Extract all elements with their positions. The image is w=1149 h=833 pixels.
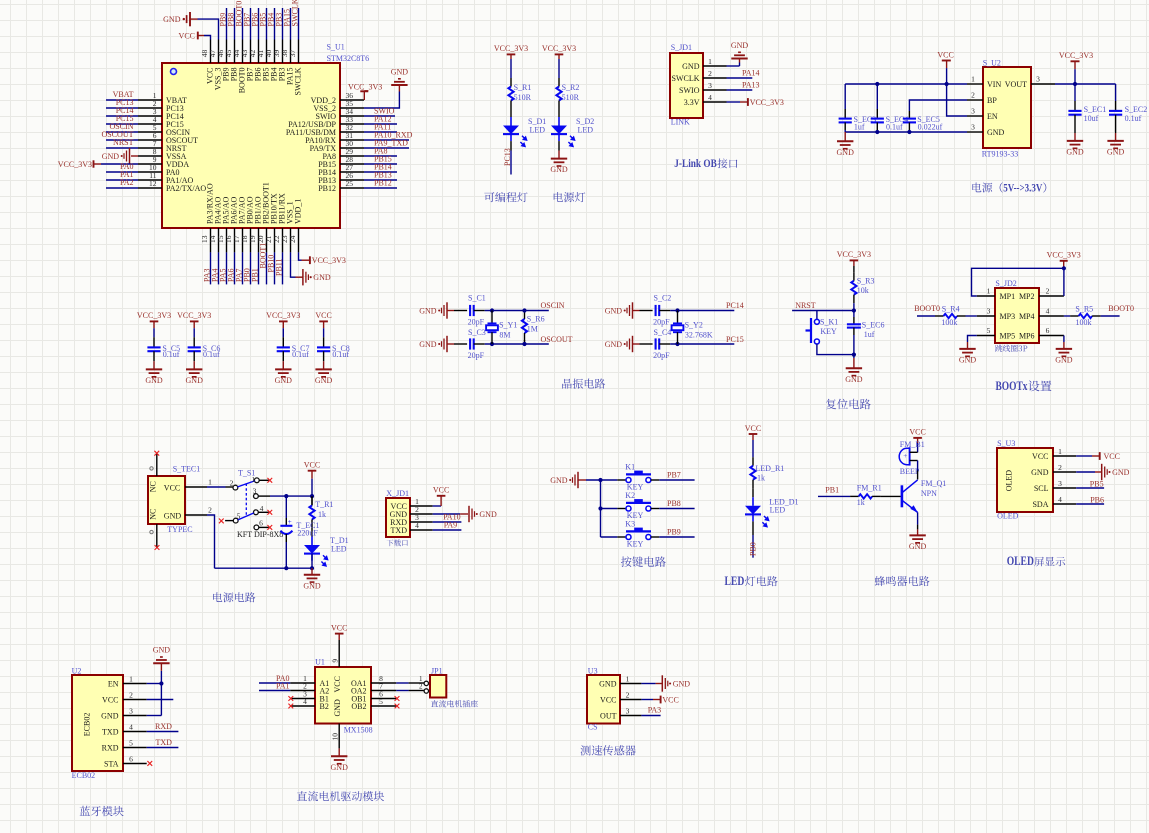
svg-text:GND: GND <box>101 711 119 720</box>
wire <box>601 536 618 538</box>
svg-text:LINK: LINK <box>671 118 690 127</box>
wire <box>601 508 618 510</box>
svg-text:KFT DIP-8X8: KFT DIP-8X8 <box>237 530 283 539</box>
power VCC_3V3 above S_C5 <box>150 320 159 322</box>
connector X_JD1 body <box>386 498 410 537</box>
wire net PB7 <box>651 479 660 481</box>
switch pin1 open <box>259 479 269 481</box>
U1 pin 10 GND stub <box>338 724 340 749</box>
no-ERC mark at STA <box>147 761 152 766</box>
svg-text:VCC_3V3: VCC_3V3 <box>348 82 382 91</box>
U2 pin 4 TXD <box>123 731 147 733</box>
MCU pin 5 OSCIN stub <box>138 131 162 133</box>
connector S_JD1 body <box>670 53 703 118</box>
socket JP1 body <box>430 675 446 698</box>
U2 pin 6 STA <box>123 763 147 765</box>
S_U3 pin 2 GND <box>1053 471 1076 473</box>
MCU pin 44 BOOT0 stub <box>242 40 244 64</box>
MCU pin 20 PB2/BOOT1 stub <box>266 228 268 252</box>
wire net BOOT0 right <box>1101 315 1120 317</box>
svg-text:1uf: 1uf <box>854 123 865 132</box>
MCU pin 38 PA15 stub <box>290 40 292 64</box>
svg-text:VCC: VCC <box>662 695 678 704</box>
svg-text:1: 1 <box>251 475 255 484</box>
wire <box>282 328 284 337</box>
svg-text:2: 2 <box>129 690 133 699</box>
svg-text:S_EC6: S_EC6 <box>862 321 885 330</box>
S_U2 pin 3 VOUT <box>1031 83 1055 85</box>
svg-text:GND: GND <box>550 165 568 174</box>
svg-text:NC: NC <box>149 481 158 492</box>
wire pin1 to ground <box>641 683 655 685</box>
wire <box>752 440 754 457</box>
wire net BOOT0 left <box>917 315 935 317</box>
wire <box>558 59 560 78</box>
caption programmable LED <box>484 192 527 202</box>
wire net PA3 bottom <box>210 252 212 284</box>
svg-text:PA14: PA14 <box>742 69 760 78</box>
svg-text:S_R5: S_R5 <box>1075 304 1093 313</box>
svg-text:GND: GND <box>313 273 331 282</box>
wire <box>752 488 754 497</box>
svg-text:PB0: PB0 <box>749 542 758 556</box>
caption DC motor driver module <box>297 791 384 801</box>
svg-text:OB2: OB2 <box>351 702 366 711</box>
wire net PB13 <box>364 179 397 181</box>
power VCC_3V3 above S_R3 <box>850 259 859 261</box>
svg-text:U3: U3 <box>588 666 598 675</box>
capacitor S_C5 0.1uf <box>147 346 160 348</box>
svg-text:PB9: PB9 <box>667 528 681 537</box>
ground left of S_C3 <box>446 336 448 352</box>
wire <box>917 512 919 524</box>
MCU pin 15 PA5/AO stub <box>226 228 228 252</box>
wire VIN rail <box>845 83 967 85</box>
junction <box>852 353 856 357</box>
wire <box>853 303 855 310</box>
svg-text:VCC_3V3: VCC_3V3 <box>542 44 576 53</box>
svg-text:20pF: 20pF <box>468 317 485 326</box>
junction <box>875 130 879 134</box>
no-ERC mark at B1 <box>288 696 293 701</box>
X_JD1 pin 3 RXD <box>410 521 433 523</box>
svg-text:K3: K3 <box>625 519 635 528</box>
svg-text:1k: 1k <box>318 510 326 519</box>
MCU pin 29 PA8 stub <box>340 155 364 157</box>
wire net OSCIN <box>106 131 138 133</box>
MCU pin 3 PC14 stub <box>138 115 162 117</box>
ground right of X_JD1 <box>468 506 470 522</box>
svg-text:5: 5 <box>987 326 991 335</box>
ground below T_D1 <box>311 568 313 575</box>
switch pin4 open <box>258 511 269 513</box>
svg-text:S_JD1: S_JD1 <box>671 43 692 52</box>
MCU pin 23 VSS_1 stub <box>290 228 292 252</box>
wire net PA2 <box>106 187 138 189</box>
svg-text:PA13: PA13 <box>742 81 760 90</box>
wire net PB11 bottom <box>282 252 284 284</box>
wire pin2 to power <box>641 699 653 701</box>
svg-text:GND: GND <box>315 376 333 385</box>
wire net PB0 <box>752 521 754 535</box>
wire pin1 to power <box>433 505 441 507</box>
capacitor S_EC6 1uf <box>847 323 861 325</box>
display S_U3 body <box>997 448 1053 512</box>
wire net PB4 top <box>274 8 276 40</box>
wire <box>153 328 155 337</box>
key S_K1 <box>814 319 819 324</box>
wire pin1 EN <box>147 683 162 685</box>
svg-text:GND: GND <box>909 542 927 551</box>
S_JD1 pin 3 SWIO <box>703 89 727 91</box>
svg-text:VCC_3V3: VCC_3V3 <box>750 98 784 107</box>
S_JD1 pin 2 SWCLK <box>703 77 727 79</box>
svg-text:TXD: TXD <box>391 526 408 535</box>
MCU pin 48 VCC stub <box>210 40 212 64</box>
MCU designator marker circle <box>171 69 177 75</box>
MCU pin 16 PA6/AO stub <box>234 228 236 252</box>
caption reset circuit <box>826 399 871 410</box>
switch T_S1 pole B <box>233 518 238 523</box>
svg-text:VCC_3V3: VCC_3V3 <box>58 160 92 169</box>
svg-text:10k: 10k <box>857 286 869 295</box>
MCU pin 2 PC13 stub <box>138 107 162 109</box>
sensor U3 pin 1 GND <box>620 683 641 685</box>
svg-text:BOOTx: BOOTx <box>996 379 1029 393</box>
svg-text:1: 1 <box>1058 447 1062 456</box>
svg-text:2: 2 <box>1046 286 1050 295</box>
wire net PB1 bottom <box>258 252 260 284</box>
svg-text:PA9: PA9 <box>444 521 458 530</box>
svg-text:2: 2 <box>419 683 423 691</box>
wire net PC13 <box>106 107 138 109</box>
svg-text:S_TEC1: S_TEC1 <box>173 464 201 473</box>
svg-text:VCC_3V3: VCC_3V3 <box>1047 250 1081 259</box>
wire <box>853 328 855 335</box>
MCU pin 18 PB0/AO stub <box>250 228 252 252</box>
svg-text:20pF: 20pF <box>653 317 670 326</box>
svg-text:4: 4 <box>303 697 307 706</box>
wire net PA9 <box>433 529 462 531</box>
switch T_S1 link <box>245 483 247 516</box>
wire VDDA <box>101 163 138 165</box>
wire net PB15 <box>364 163 397 165</box>
svg-text:U1: U1 <box>315 657 325 666</box>
capacitor S_EC2 0.1uf <box>1109 110 1122 112</box>
svg-text:GND: GND <box>682 62 700 71</box>
MCU pin 22 PB11/RX stub <box>282 228 284 252</box>
wire net PA7 bottom <box>242 252 244 284</box>
caption key circuit <box>621 556 666 567</box>
wire <box>285 496 287 518</box>
wire net VBAT <box>106 99 138 101</box>
MCU pin 9 VDDA stub <box>138 163 162 165</box>
svg-text:GND: GND <box>391 68 409 77</box>
power VCC_3V3 above S_C7 <box>279 320 288 322</box>
svg-text:EN: EN <box>987 112 998 121</box>
svg-text:20pF: 20pF <box>653 351 670 360</box>
svg-text:SWIO: SWIO <box>679 86 700 95</box>
wire <box>908 111 910 118</box>
svg-text:S_R2: S_R2 <box>562 83 580 92</box>
svg-text:LED: LED <box>770 506 786 515</box>
power VCC_3V3 above S_R1 <box>507 53 516 55</box>
svg-text:220uF: 220uF <box>297 529 318 538</box>
resistor S_R3 10k <box>853 272 855 281</box>
wire VCC stem <box>946 68 948 84</box>
wire net PB14 <box>364 171 397 173</box>
wire OA2 to JP1 <box>396 690 408 692</box>
wire net PA0 <box>259 682 290 684</box>
svg-text:B2: B2 <box>320 702 329 711</box>
svg-text:PB11: PB11 <box>275 259 284 277</box>
JP1 pin 1 <box>424 681 428 685</box>
jumper S_JD2 body <box>995 288 1039 343</box>
svg-text:9: 9 <box>331 659 340 663</box>
svg-text:GND: GND <box>837 148 855 157</box>
U1 pin 1 A1 <box>290 682 315 684</box>
wire net PA11 <box>364 131 397 133</box>
wire <box>817 344 854 355</box>
svg-text:VCC: VCC <box>164 484 180 493</box>
MCU pin 27 PB14 stub <box>340 171 364 173</box>
wire <box>917 461 919 471</box>
wire <box>853 311 855 318</box>
no-ERC mark at B2 <box>288 704 293 709</box>
capacitor T_EC1 220uF <box>280 525 292 527</box>
svg-text:1: 1 <box>971 75 975 84</box>
svg-text:OSCOUT: OSCOUT <box>541 335 573 344</box>
resistor FM_R1 1k <box>850 495 859 497</box>
transistor FM_Q1 NPN <box>901 485 904 507</box>
S_JD2 pin 3 stub <box>977 315 995 317</box>
junction <box>1073 82 1077 86</box>
wire <box>454 310 467 312</box>
capacitor S_EC3 1uf <box>839 118 852 120</box>
wire pin3 GND <box>147 715 162 717</box>
wire net PA1 <box>259 690 290 692</box>
wire net PC13 <box>510 141 512 150</box>
capacitor S_C7 0.1uf <box>277 346 290 348</box>
svg-text:PB12: PB12 <box>318 184 336 193</box>
JP1 pin 2 <box>424 689 428 693</box>
ground above tie <box>160 663 162 671</box>
svg-text:NRST: NRST <box>113 138 134 147</box>
svg-text:1: 1 <box>129 674 133 683</box>
caption crystal circuit <box>562 379 605 389</box>
svg-text:PB1: PB1 <box>251 268 260 282</box>
svg-text:1uf: 1uf <box>864 330 875 339</box>
MCU pin 8 VSSA stub <box>138 155 162 157</box>
S_JD2 pin 1 stub <box>977 295 995 297</box>
wire <box>323 351 325 361</box>
power VCC above LED_R1 <box>749 433 758 435</box>
svg-text:0.1uf: 0.1uf <box>292 350 309 359</box>
ground below S_EC1 <box>1074 133 1076 141</box>
svg-text:OUT: OUT <box>600 711 617 720</box>
svg-text:GND: GND <box>333 699 342 717</box>
wire <box>908 122 910 130</box>
wire <box>1074 69 1076 84</box>
svg-text:PC15: PC15 <box>726 335 744 344</box>
wire BP <box>909 100 967 111</box>
wire pin23 to ground <box>291 252 296 277</box>
junction <box>522 342 526 346</box>
wire <box>311 528 313 537</box>
svg-text:TYPEC: TYPEC <box>167 525 192 534</box>
svg-text:MP1: MP1 <box>1000 292 1016 301</box>
wire <box>558 141 560 150</box>
resistor S_R5 100k <box>1070 315 1079 317</box>
wire <box>876 84 878 109</box>
svg-text:MP2: MP2 <box>1019 292 1035 301</box>
wire bottom rail <box>215 567 313 569</box>
wire OA1 to JP1 <box>396 682 408 684</box>
wire <box>285 534 287 542</box>
svg-text:0.022uf: 0.022uf <box>918 123 943 132</box>
power VCC_3V3 at S_JD1 pin4 <box>747 98 749 106</box>
wire net PA10 <box>433 521 462 523</box>
wire pin1 to ground <box>727 65 740 67</box>
svg-text:8M: 8M <box>499 331 510 340</box>
svg-text:KEY: KEY <box>627 539 644 548</box>
svg-text:GND: GND <box>1107 148 1125 157</box>
wire net PB6 <box>1076 503 1104 505</box>
svg-text:4: 4 <box>708 93 712 102</box>
S_U3 pin 1 VCC <box>1053 455 1076 457</box>
svg-text:VCC: VCC <box>1032 452 1048 461</box>
resistor T_R1 1k <box>311 497 313 506</box>
svg-text:32.768K: 32.768K <box>685 331 713 340</box>
svg-text:U2: U2 <box>72 666 82 675</box>
wire net BOOT0 top <box>242 8 244 40</box>
wire pin3 to VCC rail <box>258 495 270 497</box>
resistor S_R1 510R <box>510 78 512 87</box>
svg-text:STA: STA <box>104 759 119 768</box>
capacitor S_C2 20pF <box>655 305 657 316</box>
wire VCC to pin 48 <box>204 36 211 40</box>
S_JD2 pin 6 stub <box>1039 335 1064 337</box>
svg-text:VCC_3V3: VCC_3V3 <box>266 311 300 320</box>
wire <box>640 343 653 345</box>
no-ERC mark <box>267 525 272 530</box>
svg-text:S_R1: S_R1 <box>514 83 532 92</box>
wire pin35 to ground <box>364 92 399 109</box>
wire net PB5 top <box>266 8 268 40</box>
svg-text:X_JD1: X_JD1 <box>386 489 409 498</box>
svg-text:STM32C8T6: STM32C8T6 <box>327 54 370 63</box>
svg-text:VOUT: VOUT <box>1005 80 1027 89</box>
S_TEC1 shell stub top <box>156 453 158 476</box>
buzzer FM_B1 BEEP <box>917 443 919 452</box>
svg-text:1: 1 <box>626 674 630 683</box>
U2 pin 3 GND <box>123 715 147 717</box>
svg-text:VCC: VCC <box>315 311 331 320</box>
S_JD1 pin 1 GND <box>703 65 727 67</box>
regulator S_U2 body <box>983 67 1031 148</box>
svg-text:GND: GND <box>1112 468 1130 477</box>
svg-text:GND: GND <box>419 340 437 349</box>
svg-text:ECB02: ECB02 <box>72 771 96 780</box>
MCU pin 6 OSCOUT stub <box>138 139 162 141</box>
svg-text:PC13: PC13 <box>503 148 512 166</box>
svg-text:4: 4 <box>415 521 419 530</box>
svg-text:4: 4 <box>1058 495 1062 504</box>
svg-text:0.1uf: 0.1uf <box>332 350 349 359</box>
U2 pin 5 RXD <box>123 747 147 749</box>
svg-text:VCC: VCC <box>909 428 925 437</box>
wire net PA10_RXD <box>364 139 409 141</box>
svg-text:RXD: RXD <box>155 722 172 731</box>
svg-text:K1: K1 <box>625 462 635 471</box>
svg-text:GND: GND <box>153 646 171 655</box>
junction <box>310 566 314 570</box>
resistor LED_R1 1k <box>752 457 754 466</box>
wire net PB8 <box>651 508 660 510</box>
svg-text:6: 6 <box>259 518 263 527</box>
switch contact 6 <box>254 525 259 530</box>
ground left of S_C1 <box>446 302 448 318</box>
svg-text:SDA: SDA <box>1032 500 1048 509</box>
svg-text:MP5: MP5 <box>1000 331 1016 340</box>
svg-text:GND: GND <box>1031 468 1049 477</box>
MCU pin 30 PA9/TX stub <box>340 147 364 149</box>
wire <box>311 554 313 569</box>
junction <box>284 566 288 570</box>
MCU pin 4 PC15 stub <box>138 123 162 125</box>
MCU pin 24 VDD_1 stub <box>298 228 300 252</box>
ground below S_EC2 <box>1115 133 1117 141</box>
svg-text:VCC: VCC <box>1104 452 1120 461</box>
svg-text:5: 5 <box>379 697 383 706</box>
wire <box>1074 101 1076 110</box>
wire <box>193 351 195 361</box>
svg-text:0.1uf: 0.1uf <box>163 350 180 359</box>
svg-text:GND: GND <box>673 679 691 688</box>
wire net PB1 <box>818 495 850 497</box>
wire key branch <box>816 311 818 320</box>
svg-text:VCC: VCC <box>937 51 953 60</box>
wire GND down <box>207 515 215 568</box>
ground at MCU pin 23 <box>296 276 303 278</box>
key K2 KEY <box>617 508 626 510</box>
svg-text:S_R4: S_R4 <box>942 304 960 313</box>
MCU pin 31 PA10/RX stub <box>340 139 364 141</box>
svg-text:5V-->3.3V: 5V-->3.3V <box>1003 180 1042 194</box>
resistor S_R6 1M <box>524 311 526 320</box>
caption power circuit <box>213 592 255 602</box>
caption bluetooth module <box>80 806 124 816</box>
wire EN-GND tie <box>160 671 162 716</box>
capacitor S_C1 20pF <box>469 305 471 316</box>
wire net PB12 <box>364 187 397 189</box>
svg-text:5: 5 <box>129 738 133 747</box>
wire <box>640 310 653 312</box>
junction <box>675 308 679 312</box>
svg-text:MP3: MP3 <box>1000 312 1016 321</box>
wire net PB8 top <box>234 8 236 40</box>
U1 pin 9 VCC stub <box>338 640 340 667</box>
wire net PA13 <box>727 89 753 91</box>
U1 pin 4 B2 <box>290 705 315 707</box>
MCU pin 46 PB9 stub <box>226 40 228 64</box>
junction <box>490 308 494 312</box>
power VCC above U1 <box>335 633 344 635</box>
svg-text:VCC_3V3: VCC_3V3 <box>312 256 346 265</box>
wire pin6 down <box>1063 336 1065 343</box>
svg-text:S_U3: S_U3 <box>997 439 1015 448</box>
svg-text:VCC: VCC <box>304 461 320 470</box>
